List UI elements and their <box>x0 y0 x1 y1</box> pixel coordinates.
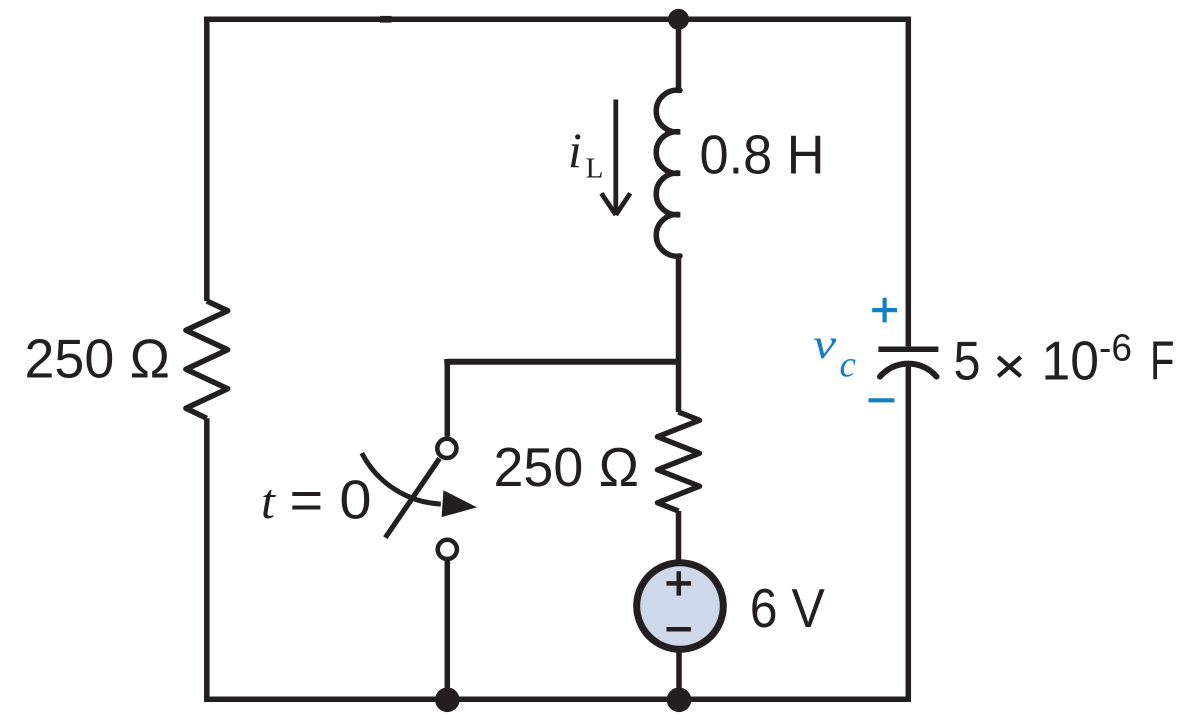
wire bottom <box>204 697 908 703</box>
wire top overlap seam <box>380 16 392 23</box>
wire middle (resistor to source) <box>676 511 682 563</box>
resistor R-mid 250ohm zigzag <box>658 412 700 511</box>
node dot bottom middle <box>667 688 692 713</box>
svg-text:F: F <box>1150 330 1175 392</box>
svg-text:10: 10 <box>1042 330 1100 392</box>
svg-text:i: i <box>568 122 582 178</box>
resistor R-left 250ohm zigzag <box>186 301 228 418</box>
wire top <box>204 17 908 23</box>
wire right upper <box>906 17 912 347</box>
wire right lower <box>906 364 912 702</box>
switch arrowhead <box>442 491 476 517</box>
label times sign <box>998 357 1021 376</box>
node dot bottom switch <box>435 688 460 713</box>
source plus sign <box>667 571 692 595</box>
svg-text:250 Ω: 250 Ω <box>494 436 640 498</box>
svg-text:t: t <box>261 473 276 529</box>
voltage source V1 6V circle <box>637 563 724 650</box>
svg-text:c: c <box>840 345 857 386</box>
svg-text:5: 5 <box>954 330 981 392</box>
node dot top <box>668 9 689 30</box>
svg-text:6 V: 6 V <box>750 577 825 639</box>
wire switch lower leg <box>445 561 451 700</box>
svg-text:= 0: = 0 <box>290 469 372 531</box>
inductor L 0.8H coil <box>656 90 680 256</box>
current arrow iL <box>601 100 630 215</box>
capacitor minus sign (blue) <box>869 398 895 402</box>
capacitor plus sign (blue) <box>872 298 897 323</box>
switch motion arc <box>362 453 441 504</box>
capacitor C top plate <box>878 346 938 352</box>
svg-text:0.8 H: 0.8 H <box>700 124 825 186</box>
switch terminal circle bottom <box>438 540 457 559</box>
wire switch upper leg <box>445 362 451 437</box>
wire middle bottom (source to bottom) <box>676 649 682 699</box>
svg-text:v: v <box>813 322 836 368</box>
svg-text:-6: -6 <box>1099 327 1132 369</box>
wire mid horizontal (switch to middle branch) <box>447 359 678 362</box>
wire middle (inductor to resistor, past mid junction) <box>676 256 682 412</box>
source minus sign <box>667 627 692 632</box>
switch terminal circle top <box>437 439 456 458</box>
svg-text:250 Ω: 250 Ω <box>25 328 171 390</box>
switch blade <box>385 459 439 538</box>
svg-text:L: L <box>586 153 604 185</box>
wire left lower <box>204 418 210 702</box>
wire left upper <box>204 17 210 302</box>
capacitor C bottom curved plate <box>880 364 937 377</box>
wire middle top (node to inductor) <box>676 19 682 91</box>
